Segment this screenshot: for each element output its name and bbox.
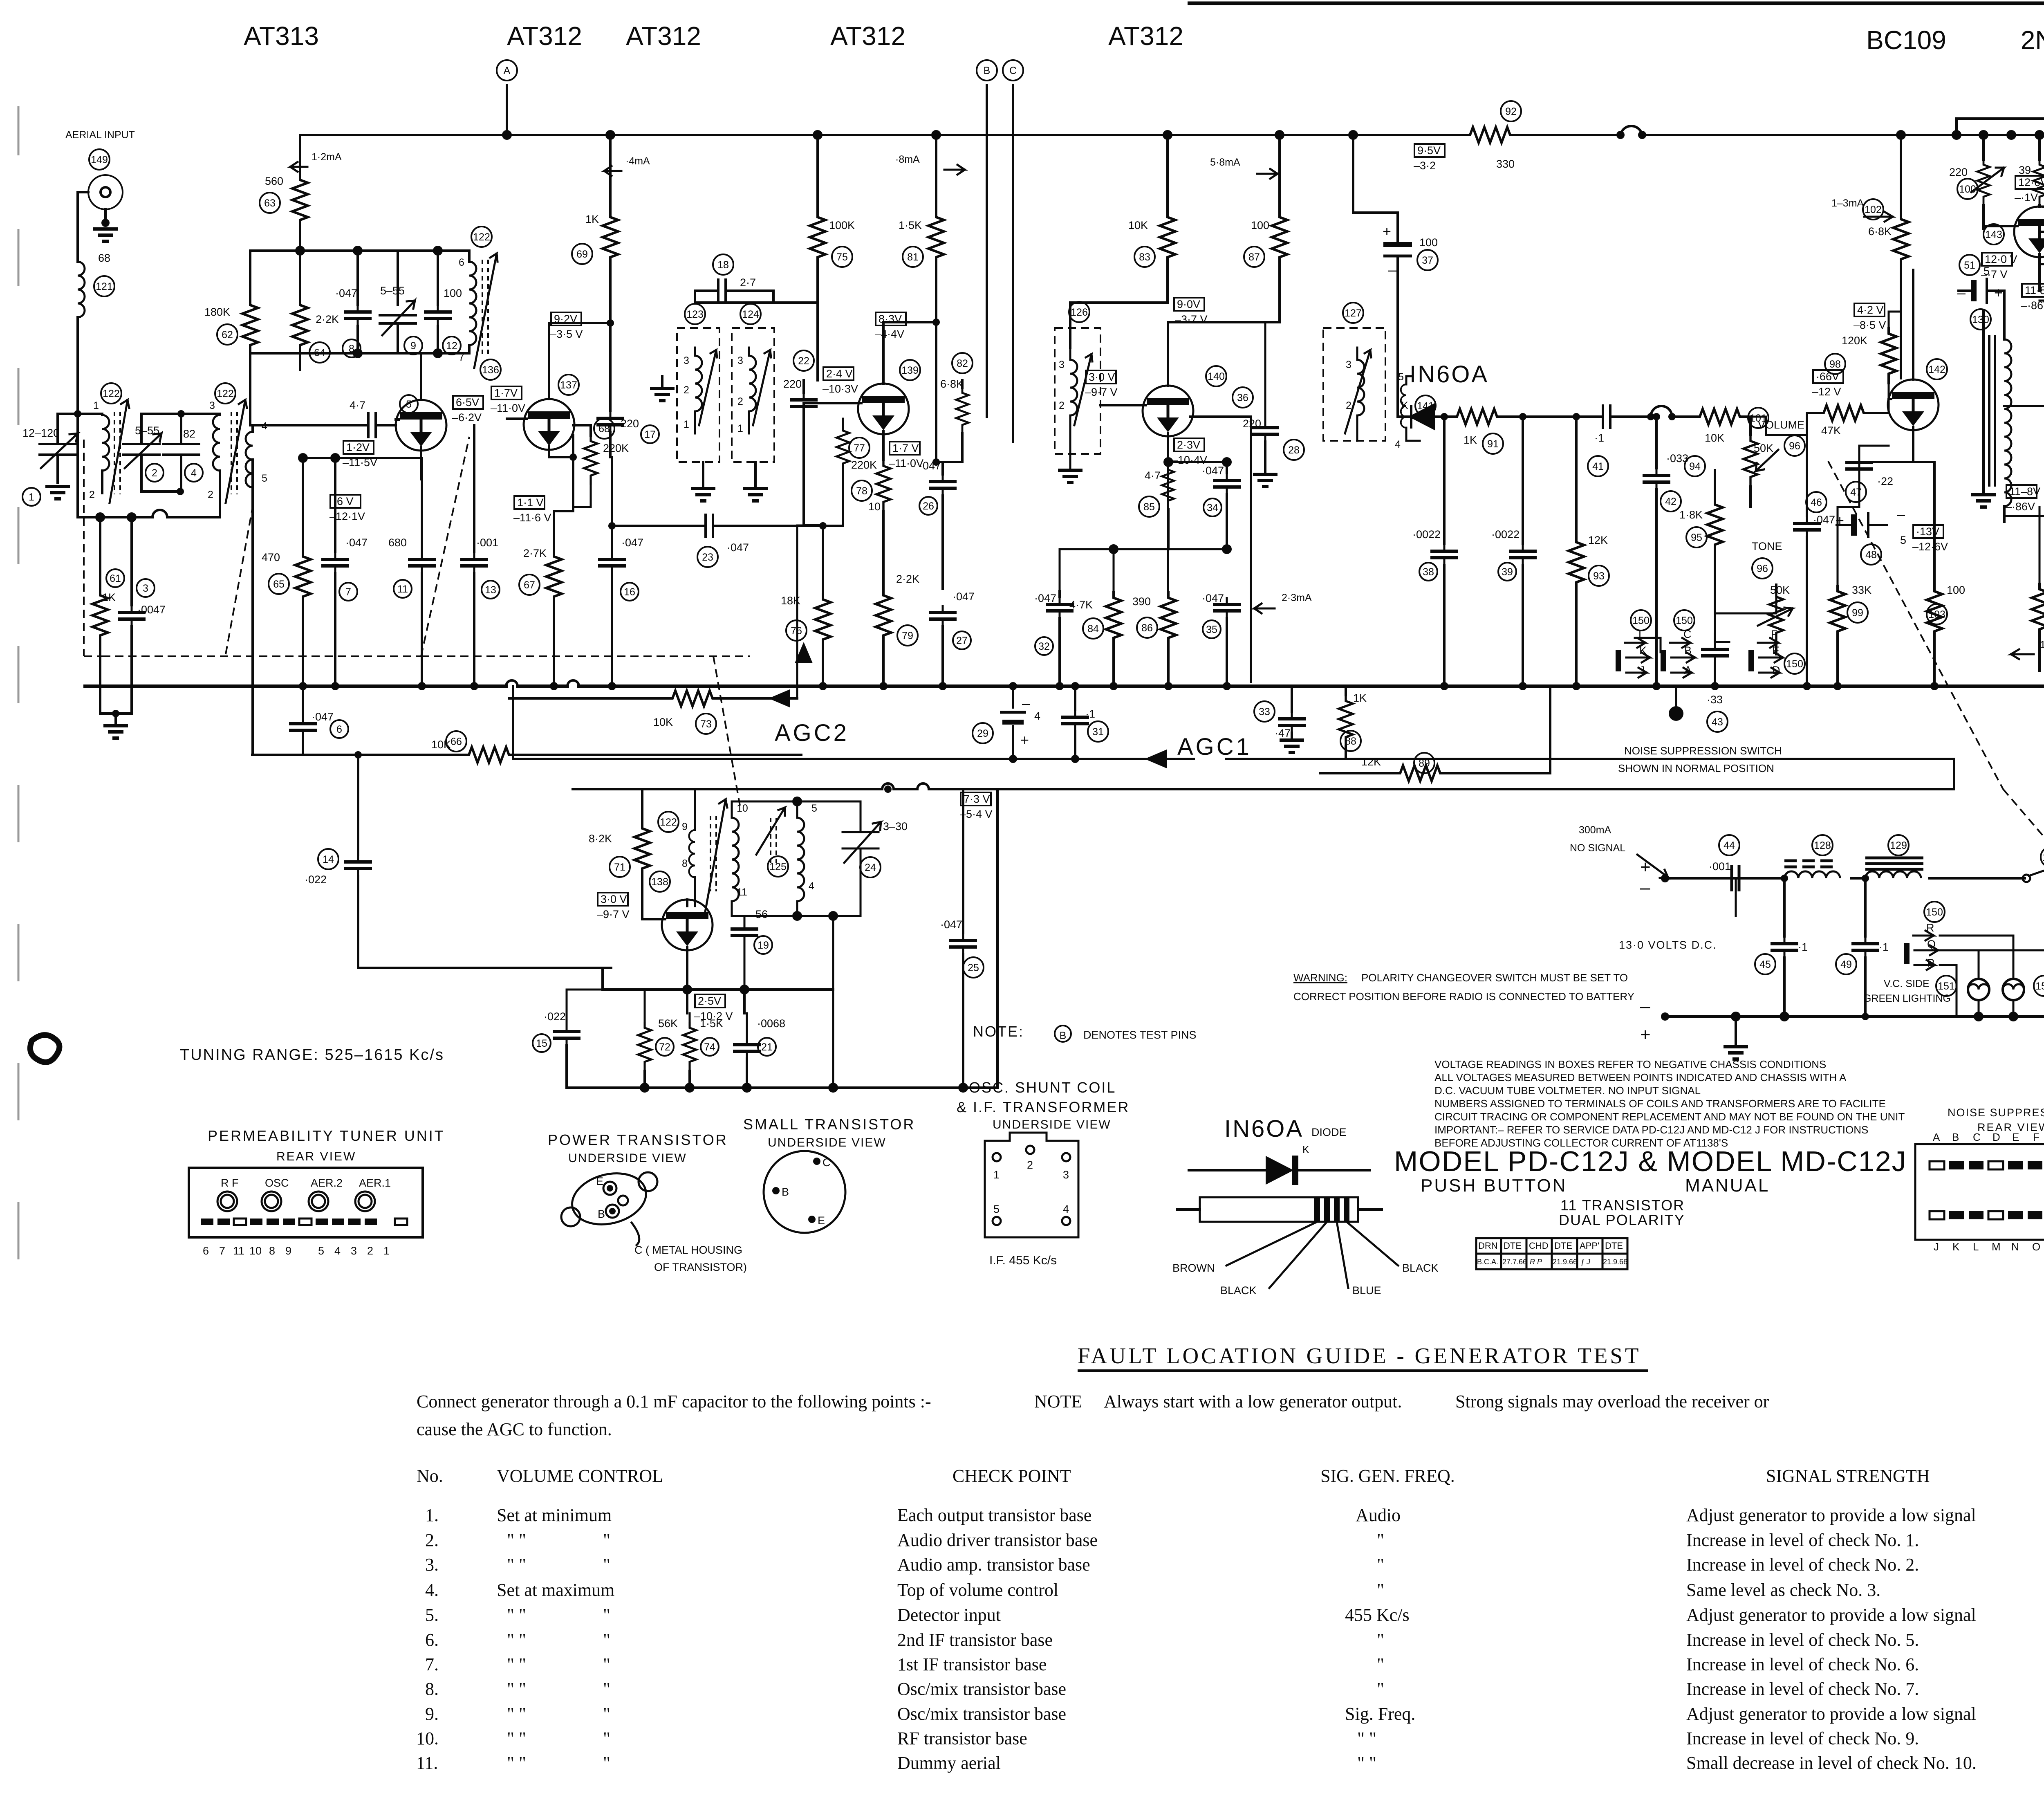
svg-text:139: 139 bbox=[901, 365, 919, 376]
svg-text:–12 V: –12 V bbox=[1812, 386, 1841, 398]
svg-text:L: L bbox=[1638, 628, 1645, 640]
resistor R66 10K bbox=[431, 731, 520, 763]
svg-text:DTE: DTE bbox=[1605, 1241, 1623, 1251]
T126 slug bbox=[1074, 354, 1092, 425]
svg-text:–·86V: –·86V bbox=[2021, 299, 2044, 312]
svg-text:21.9.66: 21.9.66 bbox=[1603, 1258, 1627, 1266]
svg-text:SHOWN IN NORMAL POSITION: SHOWN IN NORMAL POSITION bbox=[1618, 762, 1774, 774]
svg-text:4·2 V: 4·2 V bbox=[1857, 304, 1884, 316]
svg-text:": " bbox=[603, 1728, 610, 1748]
svg-text:": " bbox=[603, 1530, 610, 1550]
svg-text:VOLTAGE READINGS IN BOXES REFE: VOLTAGE READINGS IN BOXES REFER TO NEGAT… bbox=[1434, 1058, 1826, 1070]
svg-text:NO SIGNAL: NO SIGNAL bbox=[1570, 842, 1625, 854]
svg-text:B: B bbox=[1952, 1131, 1959, 1143]
svg-text:GREEN LIGHTING: GREEN LIGHTING bbox=[1863, 993, 1951, 1004]
svg-text:·33: ·33 bbox=[1707, 693, 1723, 706]
svg-text:92: 92 bbox=[1505, 106, 1517, 117]
svg-text:128: 128 bbox=[1814, 840, 1831, 851]
svg-text:Each output transistor base: Each output transistor base bbox=[897, 1505, 1091, 1525]
svg-text:11: 11 bbox=[233, 1245, 244, 1257]
svg-text:·0022: ·0022 bbox=[1412, 528, 1441, 541]
svg-text:73: 73 bbox=[700, 718, 712, 730]
voltage reading notes bbox=[1434, 1058, 1905, 1149]
resistor R98 120K bbox=[1825, 312, 1901, 413]
svg-text:CIRCUIT TRACING OR COMPONEN: CIRCUIT TRACING OR COMPONENT REPLACEMENT… bbox=[1434, 1111, 1905, 1123]
wire: 8.3V rail to emitter components bbox=[883, 322, 962, 462]
resistor R103 100 bbox=[1927, 462, 1965, 686]
svg-text:98: 98 bbox=[1829, 359, 1841, 370]
svg-text:122: 122 bbox=[660, 817, 677, 828]
filter choke L129 bbox=[1865, 835, 1923, 878]
svg-text:–4·4V: –4·4V bbox=[875, 328, 904, 340]
capacitor C44 .001 bbox=[1709, 835, 1739, 916]
voltage box 1.1V bbox=[513, 496, 551, 524]
svg-text:DTE: DTE bbox=[1504, 1241, 1522, 1251]
svg-text:11·8 V: 11·8 V bbox=[2025, 284, 2044, 296]
svg-text:49: 49 bbox=[1840, 959, 1852, 970]
dash-dot tuner gang line bbox=[84, 437, 750, 806]
svg-text:1: 1 bbox=[684, 419, 689, 430]
capacitor C11 680 bbox=[388, 458, 436, 686]
wire aerial to coil bbox=[78, 192, 88, 262]
svg-text:DIODE: DIODE bbox=[1311, 1126, 1347, 1138]
ground under C1 bbox=[45, 487, 70, 499]
resistor R91 1K bbox=[1450, 409, 1596, 454]
svg-text:POWER TRANSISTOR: POWER TRANSISTOR bbox=[548, 1131, 728, 1148]
svg-text:46: 46 bbox=[1811, 497, 1822, 508]
transistor TR143 bbox=[1983, 205, 2044, 291]
svg-text:·66V: ·66V bbox=[1816, 370, 1839, 383]
svg-text:10K: 10K bbox=[653, 716, 673, 728]
svg-text:3.: 3. bbox=[425, 1555, 439, 1575]
trimmer C2 5-55 bbox=[123, 414, 164, 491]
svg-text:M: M bbox=[1992, 1241, 2001, 1253]
svg-text:1: 1 bbox=[737, 423, 743, 434]
svg-text:BROWN: BROWN bbox=[1172, 1262, 1215, 1274]
svg-text:Increase in level of check: Increase in level of check No. 5. bbox=[1686, 1630, 1919, 1650]
svg-text:·047: ·047 bbox=[727, 541, 749, 554]
svg-text:42: 42 bbox=[1665, 496, 1676, 507]
current arrow 1.3mA bbox=[1831, 197, 1893, 222]
svg-text:·1: ·1 bbox=[1085, 708, 1095, 720]
svg-text:12·0 V: 12·0 V bbox=[1985, 253, 2017, 265]
svg-text:3: 3 bbox=[1059, 359, 1065, 370]
svg-text:122: 122 bbox=[217, 388, 234, 399]
slug arrow bbox=[474, 254, 498, 368]
resistor R92 330 on top bus bbox=[1464, 101, 1521, 170]
T125 core dashes bbox=[771, 818, 776, 867]
aerial jack bbox=[88, 175, 123, 227]
test pin A bbox=[497, 60, 517, 135]
AGC1 arrowhead and label bbox=[1145, 734, 1252, 768]
noise suppression switch contact set C/B/A bbox=[1661, 610, 1695, 678]
svg-text:11 TRANSISTOR: 11 TRANSISTOR bbox=[1560, 1197, 1685, 1214]
svg-text:1.: 1. bbox=[425, 1505, 439, 1525]
wire: ground join bbox=[100, 712, 132, 715]
svg-text:Small decrease in level of: Small decrease in level of check No. 10. bbox=[1686, 1753, 1977, 1773]
T127 slug arrow bbox=[1345, 350, 1371, 433]
voltage box 13V bbox=[1912, 525, 1948, 553]
IF transformer T124 dashed box bbox=[732, 304, 774, 462]
noise suppression switch contact set F/E/D bbox=[1748, 628, 1805, 678]
svg-text:8: 8 bbox=[682, 858, 688, 869]
ground under T126 bbox=[1058, 433, 1083, 482]
svg-text:D: D bbox=[1992, 1131, 2000, 1143]
transistor TR140 bbox=[1100, 322, 1226, 462]
svg-text:2: 2 bbox=[152, 467, 157, 479]
svg-text:+: + bbox=[1383, 223, 1391, 240]
callout 141 bbox=[1415, 395, 1436, 416]
svg-text:1·7V: 1·7V bbox=[494, 387, 518, 399]
svg-text:5: 5 bbox=[811, 803, 817, 814]
svg-text:E: E bbox=[818, 1214, 825, 1227]
svg-text:31: 31 bbox=[1092, 726, 1104, 738]
svg-text:": " bbox=[1377, 1555, 1384, 1575]
svg-text:63: 63 bbox=[264, 197, 276, 209]
svg-text:2·7: 2·7 bbox=[740, 276, 756, 289]
svg-text:": " bbox=[603, 1555, 610, 1575]
voltage box 2.5V bbox=[694, 994, 733, 1022]
svg-text:18: 18 bbox=[717, 259, 729, 271]
svg-text:+: + bbox=[1994, 284, 2003, 301]
svg-text:K: K bbox=[1401, 400, 1408, 411]
svg-text:180K: 180K bbox=[204, 306, 230, 318]
voltage box 8.3V bbox=[875, 312, 906, 340]
svg-text:11.: 11. bbox=[416, 1753, 438, 1773]
svg-text:2·7K: 2·7K bbox=[523, 547, 547, 559]
svg-text:·047: ·047 bbox=[312, 711, 334, 723]
svg-text:C: C bbox=[1683, 628, 1692, 640]
trimmer C9 5-55 bbox=[380, 251, 422, 355]
svg-text:–3·7 V: –3·7 V bbox=[1175, 313, 1208, 325]
svg-text:6: 6 bbox=[203, 1245, 209, 1257]
svg-text:·4mA: ·4mA bbox=[625, 155, 650, 167]
svg-text:151: 151 bbox=[1938, 981, 1955, 992]
svg-text:–11·6 V: –11·6 V bbox=[513, 512, 551, 524]
svg-text:21: 21 bbox=[761, 1041, 773, 1053]
svg-text:17: 17 bbox=[644, 429, 656, 440]
svg-text:cause the AGC to function.: cause the AGC to function. bbox=[417, 1419, 612, 1439]
svg-text:·0047: ·0047 bbox=[137, 604, 166, 616]
svg-text:67: 67 bbox=[524, 579, 535, 591]
resistor R71 8.2K bbox=[589, 789, 650, 906]
svg-text:142: 142 bbox=[1928, 364, 1945, 375]
svg-text:50K: 50K bbox=[1770, 584, 1790, 596]
svg-text:–11·0V: –11·0V bbox=[491, 402, 525, 414]
svg-text:4·7: 4·7 bbox=[1145, 469, 1161, 482]
svg-text:·13V: ·13V bbox=[1916, 525, 1939, 538]
resistor R83 10K bbox=[1128, 135, 1175, 303]
capacitor C16 .047 bbox=[598, 457, 643, 686]
svg-text:1: 1 bbox=[29, 491, 34, 503]
svg-text:R: R bbox=[1926, 922, 1934, 934]
svg-text:Increase in level of check: Increase in level of check No. 2. bbox=[1686, 1555, 1919, 1575]
wire: 9.2V rail bbox=[549, 323, 610, 335]
svg-text:45: 45 bbox=[1759, 959, 1771, 970]
capacitor C46 .047 bbox=[1793, 492, 1835, 686]
svg-text:7: 7 bbox=[219, 1245, 225, 1257]
svg-text:" ": " " bbox=[507, 1728, 526, 1748]
svg-text:3·0 V: 3·0 V bbox=[601, 893, 627, 905]
svg-text:": " bbox=[1377, 1630, 1384, 1650]
svg-text:121: 121 bbox=[96, 281, 113, 292]
svg-text:62: 62 bbox=[222, 329, 233, 341]
capacitor C34 .047 bbox=[1202, 462, 1241, 549]
svg-text:470: 470 bbox=[262, 551, 280, 563]
svg-text:2nd IF transistor base: 2nd IF transistor base bbox=[897, 1630, 1053, 1650]
current arrow 2.3mA bbox=[1254, 592, 1312, 613]
wire: osc tank to bottom bbox=[832, 916, 834, 1088]
svg-text:UNDERSIDE VIEW: UNDERSIDE VIEW bbox=[568, 1151, 687, 1165]
svg-text:8·2K: 8·2K bbox=[589, 833, 612, 845]
svg-text:10: 10 bbox=[249, 1245, 262, 1257]
resistor R75 100K bbox=[810, 135, 855, 303]
svg-text:6.: 6. bbox=[425, 1630, 439, 1650]
svg-text:Adjust generator to provide a: Adjust generator to provide a low signal bbox=[1686, 1505, 1976, 1525]
svg-text:5.: 5. bbox=[425, 1605, 439, 1625]
svg-text:3: 3 bbox=[684, 355, 689, 366]
svg-text:39: 39 bbox=[2019, 164, 2031, 176]
dashed core bbox=[482, 260, 488, 356]
svg-text:93: 93 bbox=[1593, 570, 1605, 582]
svg-text:35: 35 bbox=[1206, 624, 1217, 635]
capacitor C32 .047 bbox=[1034, 591, 1074, 686]
svg-text:3: 3 bbox=[1063, 1169, 1069, 1181]
svg-text:–6·2V: –6·2V bbox=[452, 411, 482, 424]
wire: emitter of TR136 bbox=[303, 458, 421, 552]
svg-text:D.C. VACUUM TUBE VOLTMETER.: D.C. VACUUM TUBE VOLTMETER. NO INPUT SIG… bbox=[1434, 1084, 1701, 1097]
svg-text:5–55: 5–55 bbox=[380, 285, 405, 297]
svg-text:89: 89 bbox=[1419, 758, 1430, 769]
transistor TR142 bbox=[1888, 270, 1947, 462]
voltage box 1.7V emitter TR139 bbox=[889, 442, 923, 469]
switch common dot bbox=[1669, 686, 1683, 721]
svg-text:1·8K: 1·8K bbox=[1679, 509, 1703, 521]
ground (tuner) bbox=[103, 714, 128, 738]
svg-text:330: 330 bbox=[1496, 158, 1515, 170]
svg-text:Connect generator through a 0.: Connect generator through a 0.1 mF capac… bbox=[417, 1391, 931, 1412]
svg-text:4: 4 bbox=[1063, 1203, 1069, 1215]
current arrow 5.8mA bbox=[1210, 157, 1277, 179]
T124 slug bbox=[753, 350, 771, 425]
svg-text:–: – bbox=[1957, 284, 1966, 301]
svg-text:·001: ·001 bbox=[1709, 860, 1731, 873]
svg-text:82: 82 bbox=[957, 358, 968, 369]
svg-text:Sig. Freq.: Sig. Freq. bbox=[1345, 1704, 1415, 1724]
callout 149 bbox=[89, 149, 110, 170]
svg-text:220: 220 bbox=[1949, 166, 1968, 178]
svg-text:33K: 33K bbox=[1852, 584, 1871, 596]
svg-text:Detector input: Detector input bbox=[897, 1605, 1001, 1625]
capacitor C21 .0068 bbox=[733, 1013, 785, 1088]
svg-text:6·5V: 6·5V bbox=[456, 396, 479, 408]
svg-text:3: 3 bbox=[737, 355, 743, 366]
svg-text:": " bbox=[1377, 1580, 1384, 1600]
capacitor C41 .1 bbox=[1588, 404, 1651, 476]
resistor R105 1K bbox=[2032, 507, 2044, 671]
svg-text:38: 38 bbox=[1423, 566, 1434, 578]
svg-text:143: 143 bbox=[1985, 229, 2002, 240]
svg-text:–: – bbox=[1388, 261, 1396, 278]
svg-text:Osc/mix transistor base: Osc/mix transistor base bbox=[897, 1704, 1066, 1724]
electrolytic C29 4 bbox=[973, 682, 1040, 763]
pilot lamp 152 red bbox=[2003, 976, 2044, 1017]
wire: osc emitter rail bbox=[603, 968, 833, 1013]
wire: collector rails upper bbox=[2040, 223, 2044, 406]
T124 winding bbox=[737, 348, 756, 434]
svg-text:K: K bbox=[1302, 1144, 1309, 1156]
svg-text:–11·0V: –11·0V bbox=[889, 457, 923, 469]
svg-text:5·8mA: 5·8mA bbox=[1210, 157, 1240, 168]
svg-text:103: 103 bbox=[1928, 609, 1945, 620]
svg-text:IMPORTANT:– REFER TO SERVICE: IMPORTANT:– REFER TO SERVICE DATA PD-C12… bbox=[1434, 1124, 1868, 1136]
svg-text:150: 150 bbox=[1676, 615, 1693, 626]
svg-text:26: 26 bbox=[923, 500, 934, 512]
dashed linkage to polarity switch bbox=[1828, 461, 2044, 875]
svg-text:2·2K: 2·2K bbox=[896, 573, 919, 585]
svg-text:Increase in level of check: Increase in level of check No. 7. bbox=[1686, 1679, 1919, 1699]
tone control R96b 50K bbox=[1752, 540, 1793, 654]
svg-text:–·86V: –·86V bbox=[2006, 500, 2035, 513]
svg-text:9.: 9. bbox=[425, 1704, 439, 1724]
svg-text:–: – bbox=[1640, 877, 1650, 898]
OSC SHUNT COIL title bbox=[957, 1079, 1130, 1131]
svg-text:68: 68 bbox=[598, 423, 610, 435]
diode D141 IN60A bbox=[1398, 400, 1450, 429]
svg-text:1·7 V: 1·7 V bbox=[892, 442, 919, 454]
svg-text:3: 3 bbox=[209, 400, 215, 411]
wire: tuner bottom row bbox=[78, 414, 220, 517]
svg-text:·047: ·047 bbox=[1813, 514, 1835, 526]
svg-text:72: 72 bbox=[659, 1041, 670, 1053]
svg-text:·022: ·022 bbox=[305, 873, 327, 886]
svg-text:41: 41 bbox=[1592, 461, 1604, 472]
svg-text:220: 220 bbox=[783, 378, 802, 390]
svg-text:": " bbox=[603, 1654, 610, 1674]
svg-text:Strong signals may overload th: Strong signals may overload the receiver… bbox=[1455, 1391, 1769, 1412]
link jumper on top bus bbox=[1616, 126, 1646, 139]
svg-text:220K: 220K bbox=[851, 459, 877, 471]
svg-text:–: – bbox=[1022, 695, 1030, 711]
svg-text:11: 11 bbox=[397, 583, 408, 595]
svg-text:2: 2 bbox=[737, 396, 743, 407]
voltage box 7.3V bbox=[960, 792, 993, 820]
capacitor C49 .1 bbox=[1836, 875, 1889, 1020]
T122 secondary 10-11 bbox=[732, 801, 779, 916]
svg-text:–: – bbox=[1897, 506, 1905, 523]
svg-text:–10·3V: –10·3V bbox=[823, 383, 858, 395]
svg-text:152: 152 bbox=[2035, 981, 2044, 992]
svg-text:9: 9 bbox=[682, 821, 688, 833]
wire: AGC2 line bbox=[252, 698, 801, 755]
svg-text:No.: No. bbox=[417, 1466, 443, 1486]
resistor R78 10 bbox=[852, 460, 890, 589]
svg-text:3–30: 3–30 bbox=[883, 820, 908, 833]
resistor R67 2.7K bbox=[519, 511, 573, 686]
RF interstage coil pins 6,7 bbox=[459, 251, 476, 363]
wire: long chassis bus bbox=[85, 684, 2044, 688]
PERMEABILITY TUNER UNIT title bbox=[208, 1127, 445, 1163]
svg-text:150: 150 bbox=[1926, 907, 1943, 918]
svg-text:REAR VIEW: REAR VIEW bbox=[276, 1150, 356, 1163]
dashed core of coil A bbox=[114, 412, 120, 494]
electrolytic C51 5 bbox=[1957, 255, 2004, 304]
wire: feedback vertical from AGC2 bbox=[797, 525, 823, 698]
wire volume top to C46 bbox=[1750, 417, 1807, 507]
svg-text:1st IF transistor base: 1st IF transistor base bbox=[897, 1654, 1047, 1674]
svg-text:·047: ·047 bbox=[621, 536, 643, 549]
voltage box 3.0V base TR140 bbox=[1085, 370, 1118, 398]
svg-text:Same level as check No. 3: Same level as check No. 3. bbox=[1686, 1580, 1880, 1600]
svg-text:149: 149 bbox=[91, 154, 108, 166]
svg-text:·001: ·001 bbox=[476, 536, 498, 549]
svg-text:SIG. GEN. FREQ.: SIG. GEN. FREQ. bbox=[1320, 1466, 1455, 1486]
link jumper (detector out) bbox=[1647, 406, 1693, 420]
svg-text:·0022: ·0022 bbox=[1491, 528, 1520, 541]
svg-text:2: 2 bbox=[367, 1245, 373, 1257]
capacitor C25 .047 bbox=[940, 789, 984, 1088]
svg-text:DTE: DTE bbox=[1554, 1241, 1572, 1251]
svg-text:3: 3 bbox=[1346, 359, 1351, 370]
lamp labels bbox=[1863, 969, 2044, 1010]
svg-text:81: 81 bbox=[907, 251, 919, 263]
capacitor C47 .22 bbox=[1845, 446, 1893, 507]
svg-text:1–3mA: 1–3mA bbox=[1831, 197, 1864, 209]
svg-text:TUNING RANGE: 525–1615 Kc/s: TUNING RANGE: 525–1615 Kc/s bbox=[180, 1046, 444, 1064]
capacitor C23 .047 on AGC2 line bbox=[608, 514, 843, 567]
svg-text:10: 10 bbox=[868, 500, 881, 513]
svg-text:·047: ·047 bbox=[953, 590, 975, 603]
svg-text:150: 150 bbox=[1786, 658, 1803, 670]
noise suppression switch caption bbox=[1618, 745, 1782, 774]
svg-text:APP': APP' bbox=[1580, 1241, 1599, 1251]
svg-text:4: 4 bbox=[334, 1245, 341, 1257]
svg-text:9: 9 bbox=[410, 340, 416, 352]
variable capacitor C24 3-30 bbox=[843, 820, 908, 877]
capacitor C13 .001 bbox=[460, 425, 500, 686]
svg-text:–3·5 V: –3·5 V bbox=[550, 328, 583, 340]
svg-text:": " bbox=[1377, 1679, 1384, 1699]
svg-text:Set at minimum: Set at minimum bbox=[497, 1505, 612, 1525]
svg-text:K: K bbox=[1952, 1241, 1960, 1253]
svg-text:–3·2: –3·2 bbox=[1414, 159, 1436, 172]
svg-text:1: 1 bbox=[93, 400, 99, 411]
wire: RF bottom rail bbox=[250, 352, 469, 355]
svg-text:10K: 10K bbox=[1128, 219, 1148, 231]
svg-text:·047: ·047 bbox=[919, 460, 941, 472]
svg-text:1·2V: 1·2V bbox=[346, 441, 370, 453]
svg-text:" ": " " bbox=[507, 1630, 526, 1650]
svg-text:4: 4 bbox=[1395, 439, 1401, 450]
wire tone top bbox=[1715, 591, 1776, 634]
POWER TRANSISTOR title bbox=[548, 1131, 728, 1165]
svg-text:6: 6 bbox=[459, 257, 464, 268]
svg-text:100: 100 bbox=[1251, 219, 1269, 231]
svg-text:78: 78 bbox=[856, 485, 867, 497]
svg-text:+: + bbox=[1640, 1025, 1651, 1045]
svg-text:·022: ·022 bbox=[544, 1010, 566, 1023]
grounds under IF transformers bbox=[691, 462, 715, 501]
resistor R106 18K feedback bbox=[1957, 87, 2044, 144]
svg-text:5: 5 bbox=[1900, 534, 1906, 546]
resistor R68 220K bbox=[573, 418, 629, 485]
wire coil to tuner bbox=[76, 317, 79, 414]
T122 slug arrow bbox=[705, 799, 727, 912]
tuner pin numbers bbox=[203, 1245, 390, 1257]
capacitor C33 .47 + ground bbox=[1254, 686, 1306, 752]
voltage box 12.0V bbox=[1981, 253, 2017, 281]
capacitor C28 220 bbox=[1284, 440, 1304, 460]
